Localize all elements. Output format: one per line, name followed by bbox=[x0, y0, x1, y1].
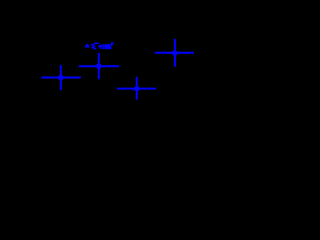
data point 1 y error bar bbox=[60, 65, 62, 90]
data point 2 y error bar bbox=[98, 53, 100, 79]
label superscript mark bbox=[109, 44, 113, 49]
data point 2 marker bbox=[97, 64, 101, 68]
data point 3 y error bar bbox=[136, 77, 138, 100]
label glyph H bbox=[102, 44, 104, 49]
label glyph plus bbox=[100, 44, 102, 49]
data point 1 x error bar bbox=[41, 77, 81, 79]
data point 1 marker bbox=[59, 75, 63, 79]
data point 2 x error bar bbox=[79, 65, 119, 67]
data point 4 marker bbox=[173, 51, 177, 55]
data point 4 y error bar bbox=[174, 39, 176, 67]
label glyph tail bbox=[110, 47, 111, 49]
label glyph 8 bbox=[106, 44, 110, 49]
data point 4 x error bar bbox=[155, 52, 194, 54]
label glyph a bbox=[85, 44, 89, 48]
data point 3 x error bar bbox=[117, 88, 156, 90]
label glyph 5 bbox=[91, 44, 95, 45]
data point 3 marker bbox=[135, 86, 139, 90]
label superscript dash bbox=[95, 43, 99, 45]
